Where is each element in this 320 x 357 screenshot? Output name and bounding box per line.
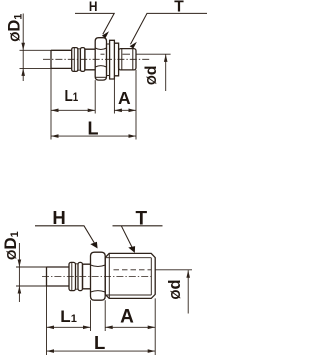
wire: extension line at gasket face x=114.4	[113, 76, 115, 114]
svg-text:T: T	[174, 0, 184, 15]
svg-text:H: H	[89, 0, 98, 14]
dimension L1 (top view)	[51, 109, 95, 111]
svg-text:L: L	[88, 119, 99, 139]
wire: D1 extension line top	[20, 49, 52, 51]
wire: D1 extension line bottom	[16, 285, 47, 287]
wire: D1 extension line top	[16, 266, 47, 268]
label H with leader	[75, 13, 114, 34]
wire: extension line at thread end x=136	[135, 70, 137, 140]
svg-text:Ød: Ød	[143, 65, 160, 85]
svg-text:ØD1: ØD1	[1, 231, 21, 260]
svg-text:ØD1: ØD1	[6, 14, 25, 42]
node: collar ridge 1	[72, 48, 78, 72]
label T with leader	[131, 13, 208, 44]
dimension d (top view): extension + dim line	[136, 53, 171, 55]
node: collar neck	[83, 264, 91, 289]
wire: D1 extension line bottom	[20, 67, 52, 69]
dimension D1 (top view)	[22, 14, 24, 82]
svg-text:L: L	[94, 332, 105, 353]
wire: d extension line	[155, 269, 192, 271]
node: washer 2 (gasket)	[114, 43, 118, 76]
hex nut H (top view)	[95, 38, 106, 80]
node: collar groove	[78, 49, 81, 70]
dimension D1 (bottom view)	[18, 243, 20, 302]
hex nut H (bottom view)	[91, 252, 106, 300]
centerline	[42, 276, 151, 278]
node: stem (tube insertion shaft)	[51, 50, 72, 68]
wire: extension line stem tip x=46.5	[46, 286, 48, 355]
dimension d (bottom view)	[187, 270, 189, 313]
node: stem	[47, 267, 70, 286]
node: collar ridge 2	[78, 262, 83, 290]
threaded cylinder T (bottom view)	[105, 253, 155, 298]
dimension A (top view)	[114, 109, 136, 111]
svg-text:Ød: Ød	[166, 279, 184, 299]
node: hidden bore dashes	[114, 269, 152, 271]
svg-text:L1: L1	[60, 307, 77, 326]
node: collar ridge 1	[69, 262, 76, 290]
label H with leader	[35, 226, 97, 247]
dimension A (bottom view)	[105, 326, 155, 328]
dimension L1 (bottom view)	[47, 326, 91, 328]
node: neck between hex and washer	[107, 44, 110, 76]
centerline	[43, 58, 151, 60]
text labels bottom view	[1, 207, 184, 353]
svg-text:L1: L1	[65, 88, 79, 105]
node: collar ridge 2	[80, 48, 85, 72]
svg-text:A: A	[120, 306, 134, 327]
wire: extension line right end x=155.2	[154, 298, 156, 355]
svg-text:A: A	[118, 88, 131, 108]
node: collar groove	[76, 264, 79, 289]
text labels top view	[6, 0, 185, 139]
node: collar neck	[85, 49, 95, 70]
wire: extension line hex face x=90.5	[90, 300, 92, 331]
wire: extension line cylinder start x=105.2	[104, 300, 106, 331]
node: washer 1	[110, 40, 115, 79]
label T with leader	[113, 226, 163, 251]
wire: extension line at hex face x=95.2	[94, 80, 96, 113]
svg-text:T: T	[135, 208, 147, 229]
svg-text:H: H	[52, 207, 65, 228]
wire: extension line at stem tip x=51	[50, 68, 52, 139]
thread end piece T (top view)	[119, 49, 136, 70]
dimension L (top view)	[51, 135, 136, 137]
dimension L (bottom view)	[47, 350, 156, 352]
node: hidden bore line dashes	[101, 53, 131, 55]
